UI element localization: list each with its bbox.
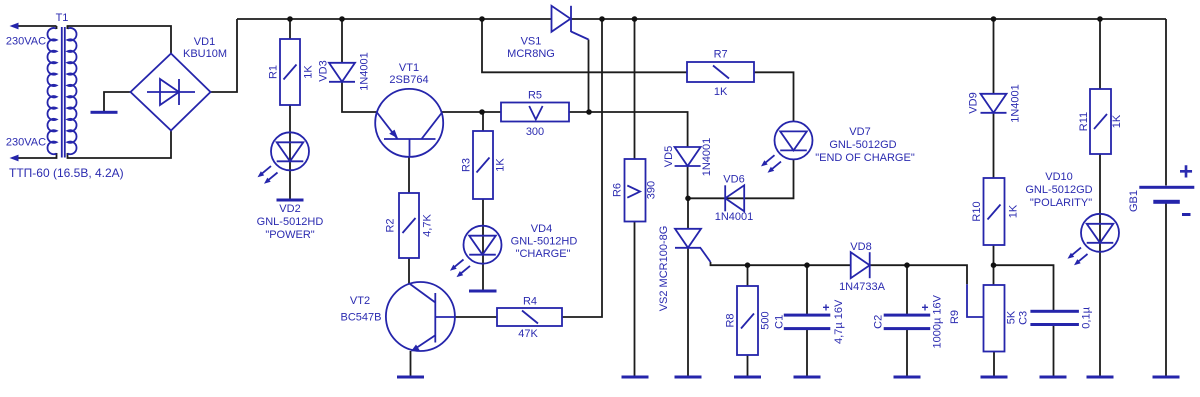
svg-text:5K: 5K: [1006, 310, 1018, 324]
resistor R2: [399, 193, 419, 258]
svg-text:VD4: VD4: [531, 223, 552, 235]
node: rail R6: [632, 16, 638, 22]
LED VD10: [1068, 214, 1120, 265]
node: VT1 collector: [479, 109, 485, 115]
wire: VT1 collector to node: [442, 111, 501, 113]
ground under VD10: [1087, 376, 1114, 379]
svg-text:1K: 1K: [1008, 204, 1020, 218]
node B: R10 R9 C3: [991, 262, 997, 268]
wire: rail branch to R7: [482, 19, 687, 72]
svg-text:R5: R5: [528, 90, 542, 102]
svg-text:1K: 1K: [495, 158, 507, 172]
node: rail R7 branch: [479, 16, 485, 22]
diode VD6: [725, 185, 744, 211]
svg-text:GNL-5012HD: GNL-5012HD: [257, 216, 324, 228]
node: rail R1: [287, 16, 293, 22]
ground under R9: [981, 376, 1008, 379]
wire: top rail: [237, 18, 552, 20]
node: rail R11: [1097, 16, 1103, 22]
wire: VD5 cathode to node A: [687, 166, 689, 198]
svg-text:VT2: VT2: [350, 295, 370, 307]
svg-text:1N4001: 1N4001: [701, 138, 713, 177]
wire: VS2 anode lead: [687, 198, 689, 229]
wire: VT2 emitter to ground: [410, 351, 412, 376]
transformer T1 primary winding: [47, 28, 56, 154]
wire: R1 top lead: [289, 19, 291, 39]
wire: R11 bottom through VD10 to ground: [1099, 154, 1101, 376]
transistor VT1: [375, 89, 443, 157]
resistor R4: [497, 308, 562, 326]
svg-text:"POWER": "POWER": [265, 229, 314, 241]
svg-text:VD5: VD5: [663, 146, 675, 167]
svg-text:ТТП-60 (16.5В, 4.2А): ТТП-60 (16.5В, 4.2А): [9, 166, 124, 180]
svg-text:R7: R7: [714, 49, 728, 61]
wire: R7 right lead to VD7 top: [754, 72, 794, 121]
LED VD7: [761, 121, 813, 172]
wire: battery column from rail: [1165, 19, 1167, 186]
node A: VD5 VD6 VS2: [685, 196, 691, 202]
ground at bridge minus: [91, 111, 118, 114]
wire: primary top lead: [13, 25, 57, 27]
diode VD5: [675, 147, 701, 166]
ground under C3: [1040, 376, 1067, 379]
node: VS1 gate / R5: [586, 109, 592, 115]
capacitor C3: [1030, 310, 1079, 326]
svg-text:1N4733A: 1N4733A: [839, 281, 886, 293]
wire: C2 top lead: [906, 265, 908, 315]
wire: primary bottom lead: [13, 153, 57, 158]
wire: C3 bottom to ground: [1053, 325, 1055, 376]
svg-text:VD2: VD2: [279, 203, 300, 215]
wire: gate node to VD5: [589, 112, 688, 148]
svg-text:T1: T1: [56, 12, 69, 24]
wire: R3 bottom through VD4 to ground: [482, 199, 484, 290]
wire: C1 bottom lead: [806, 329, 808, 376]
svg-text:MCR8NG: MCR8NG: [507, 48, 555, 60]
wire: R1 bottom through VD2 to ground: [289, 105, 291, 199]
wire: bridge plus to top rail: [211, 19, 238, 92]
svg-text:VS2 MCR100-8G: VS2 MCR100-8G: [658, 226, 670, 312]
transformer T1 core: [61, 27, 63, 158]
resistor R3: [473, 131, 493, 199]
wire: rail to R4 via right column: [562, 19, 602, 317]
svg-text:BC547B: BC547B: [341, 312, 382, 324]
wire: VT1 base to R2: [408, 157, 410, 193]
svg-text:2SB764: 2SB764: [389, 74, 428, 86]
svg-text:1000µ 16V: 1000µ 16V: [932, 294, 944, 348]
svg-text:"POLARITY": "POLARITY": [1030, 197, 1092, 209]
thyristor VS1: [552, 6, 589, 40]
resistor R10: [984, 178, 1005, 245]
svg-text:GB1: GB1: [1128, 190, 1140, 212]
wire: node B to C3: [994, 265, 1054, 311]
svg-text:47K: 47K: [518, 328, 538, 340]
svg-text:R9: R9: [949, 310, 961, 324]
svg-text:4,7K: 4,7K: [422, 214, 434, 237]
ground under VT2: [397, 376, 424, 379]
svg-text:GNL-5012GD: GNL-5012GD: [1025, 184, 1092, 196]
wire: node A through VD6 to VD7 bottom: [688, 160, 794, 199]
resistor R11: [1090, 89, 1111, 154]
ground under VS2: [675, 376, 702, 379]
node: rail R4 column: [599, 16, 605, 22]
bridge rectifier VD1 diamond: [131, 54, 211, 131]
svg-text:C1: C1: [774, 315, 786, 329]
transistor VT2: [386, 282, 455, 352]
wire: gate bus VS2 to VD8: [711, 262, 851, 265]
wire: R6 bottom to ground: [634, 222, 636, 377]
svg-text:R8: R8: [725, 313, 737, 327]
LED VD4: [450, 226, 502, 277]
resistor R5: [501, 103, 569, 122]
wire: VS1 gate vertical: [588, 40, 590, 113]
ground under C2: [894, 376, 921, 379]
wire: secondary bottom to bridge: [68, 131, 172, 158]
svg-text:VD9: VD9: [968, 92, 980, 113]
ground under R8: [734, 376, 761, 379]
wire: battery minus to ground: [1165, 204, 1167, 377]
svg-text:1N4001: 1N4001: [715, 211, 754, 223]
resistor R6: [625, 159, 646, 222]
svg-text:GNL-5012GD: GNL-5012GD: [829, 139, 896, 151]
LED VD2: [258, 132, 310, 183]
svg-text:VD3: VD3: [318, 60, 330, 81]
svg-text:4,7µ 16V: 4,7µ 16V: [833, 299, 845, 344]
wire: R10 bottom to R9 top: [993, 245, 995, 285]
diode VD3: [329, 63, 355, 82]
svg-text:1K: 1K: [1111, 114, 1123, 128]
svg-text:R11: R11: [1078, 112, 1090, 131]
wire: C2 bottom lead: [906, 329, 908, 376]
wire: C1 top lead: [806, 265, 808, 315]
svg-text:C3: C3: [1018, 311, 1030, 325]
svg-text:1N4001: 1N4001: [359, 52, 371, 91]
svg-text:R4: R4: [523, 296, 537, 308]
svg-text:VD1: VD1: [194, 36, 215, 48]
wire: R11 column from rail: [1099, 19, 1101, 89]
svg-text:VS1: VS1: [521, 36, 542, 48]
wire: rail branch to R6: [634, 19, 636, 159]
svg-text:VT1: VT1: [399, 62, 419, 74]
diode VD8: [851, 252, 870, 278]
svg-text:230VAC: 230VAC: [6, 36, 46, 48]
wire: VS2 cathode to ground: [687, 248, 689, 376]
node: C1 top: [804, 262, 810, 268]
svg-text:+: +: [822, 300, 829, 314]
svg-text:+: +: [1179, 159, 1193, 186]
svg-text:R6: R6: [612, 183, 624, 197]
transformer T1 secondary winding: [68, 28, 77, 154]
svg-text:"CHARGE": "CHARGE": [516, 248, 571, 260]
trimmer R9: [967, 284, 1005, 351]
svg-text:1K: 1K: [714, 86, 728, 98]
svg-text:R10: R10: [971, 201, 983, 221]
ground under C1: [794, 376, 821, 379]
resistor R1: [280, 39, 300, 105]
ground under R6: [622, 376, 649, 379]
bridge rectifier VD1 inner diode: [160, 79, 179, 105]
wire: VD3 cathode to VT1 emitter: [342, 82, 377, 113]
svg-text:VD7: VD7: [849, 126, 870, 138]
svg-text:GNL-5012HD: GNL-5012HD: [511, 236, 578, 248]
label battery minus: [1182, 213, 1191, 216]
svg-text:500: 500: [760, 311, 772, 329]
wire: primary bottom arrowhead: [10, 155, 19, 162]
node: C2 top: [904, 262, 910, 268]
wire: VT2 collector to R4: [455, 316, 497, 318]
capacitor C2: [884, 314, 931, 331]
wire: R5 right lead to gate node: [569, 111, 589, 113]
svg-text:R2: R2: [385, 218, 397, 232]
svg-text:+: +: [921, 300, 928, 314]
wire: R9 bottom to ground: [993, 352, 995, 377]
wire: R8 top lead: [747, 265, 749, 286]
capacitor C1: [784, 314, 831, 331]
svg-text:0,1µ: 0,1µ: [1081, 306, 1093, 328]
wire: primary top arrowhead: [10, 23, 19, 30]
svg-text:VD8: VD8: [850, 241, 871, 253]
svg-text:"END OF CHARGE": "END OF CHARGE": [815, 152, 915, 164]
battery GB1: [1139, 186, 1194, 204]
wire: top rail after VS1: [571, 18, 1166, 20]
wire: VD9 column from rail: [993, 19, 995, 94]
resistor R7: [687, 62, 754, 82]
svg-text:R1: R1: [268, 65, 280, 79]
node: R8 top: [745, 262, 751, 268]
svg-text:300: 300: [526, 126, 544, 138]
svg-text:R3: R3: [461, 158, 473, 172]
bridge rectifier VD1 inner line: [147, 91, 195, 93]
wire: VD3 branch from rail: [341, 19, 343, 63]
wire: VD9 cathode to R10: [993, 113, 995, 178]
diode VD9: [981, 94, 1007, 113]
resistor R8: [737, 286, 758, 355]
svg-text:230VAC: 230VAC: [6, 137, 46, 149]
svg-text:1N4001: 1N4001: [1010, 84, 1022, 123]
svg-text:VD6: VD6: [723, 173, 744, 185]
wire: VD8 cathode to C2 node to R9 wiper corner: [871, 265, 968, 284]
ground under VD2: [277, 199, 304, 202]
wire: R2 to VT2 base: [408, 258, 410, 284]
svg-text:C2: C2: [873, 315, 885, 329]
svg-text:KBU10M: KBU10M: [183, 48, 227, 60]
node: rail VD9: [991, 16, 997, 22]
wire: R8 bottom lead: [747, 355, 749, 376]
svg-text:1K: 1K: [303, 65, 315, 79]
wire: R3 top lead: [482, 112, 484, 131]
ground under GB1: [1153, 376, 1180, 379]
thyristor VS2: [675, 229, 711, 262]
svg-text:VD10: VD10: [1045, 171, 1073, 183]
wire: bridge minus to ground: [104, 92, 131, 111]
wire: secondary top to bridge: [68, 26, 172, 54]
svg-text:390: 390: [646, 181, 658, 199]
ground under VD4: [469, 290, 497, 293]
node: rail VD3: [339, 16, 345, 22]
